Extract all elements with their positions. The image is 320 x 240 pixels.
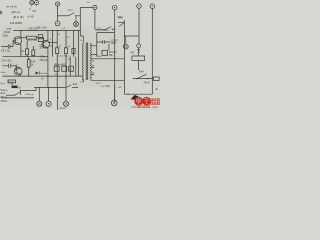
node J14 [20, 90, 21, 91]
resistor R17 [56, 48, 59, 54]
label [111, 39, 119, 45]
wire [133, 78, 154, 80]
switch SA1 [96, 27, 115, 31]
lamp HL5 [46, 88, 51, 106]
resistor R14 [21, 36, 44, 42]
transformer T1 right winding [90, 43, 91, 81]
node J1 [57, 15, 58, 16]
tap wire [91, 58, 125, 60]
resistor R13 [38, 35, 43, 42]
transformer T1 left winding [81, 36, 84, 82]
resistor R25 [153, 77, 159, 80]
label [3, 28, 12, 37]
resistor R16 [32, 46, 35, 57]
watermark url [131, 105, 157, 109]
lamp HL1 [55, 2, 59, 6]
meter PV4 [150, 4, 155, 9]
node J8 [48, 87, 49, 88]
node J13 [128, 94, 129, 95]
fuse FU1 [12, 86, 22, 90]
wire column [72, 30, 74, 56]
lamp HL7 [30, 1, 34, 7]
resistor R23 [69, 66, 74, 71]
capacitor C6 [2, 59, 17, 67]
diode VD5 [137, 48, 140, 56]
watermark logo [130, 95, 138, 100]
meter PV1 [74, 16, 79, 27]
node J4 [28, 76, 29, 77]
watermark seal 1 [134, 97, 143, 106]
wire rail D [3, 56, 49, 58]
wire [151, 9, 153, 95]
meter PA1 [55, 21, 60, 26]
wire [57, 88, 59, 110]
switch SA4 [136, 70, 148, 80]
watermark text [150, 98, 160, 104]
wire [124, 35, 138, 37]
resistor R15 [22, 41, 29, 57]
capacitor C8 [97, 40, 110, 43]
node J2 [124, 35, 125, 36]
node J11 [57, 30, 58, 31]
transistor VT3 [13, 30, 22, 56]
wire [118, 21, 124, 23]
node J6 [65, 76, 66, 77]
node J9 [57, 87, 58, 88]
wire [114, 31, 116, 103]
tap wire [91, 66, 94, 68]
switch SA5 [68, 10, 77, 16]
node J10 [57, 97, 58, 98]
switch SA6 [6, 92, 20, 96]
resistor R18 [64, 48, 67, 54]
label [40, 55, 49, 61]
transformer T1 core [86, 43, 88, 81]
label [39, 45, 47, 50]
label smudge [1, 11, 2, 15]
lamp HL4 [37, 88, 42, 106]
wire column [69, 57, 71, 76]
transistor VT4 [42, 30, 50, 87]
wire column [65, 30, 67, 87]
wire [76, 8, 93, 37]
wire column [75, 57, 77, 76]
meter PA3 [111, 84, 117, 106]
switch SA3 [65, 83, 78, 88]
lamp HL3 [123, 36, 128, 49]
wire column [52, 30, 54, 56]
wire [48, 41, 57, 43]
lamp HL2 [93, 5, 97, 9]
meter PV3 [137, 4, 142, 9]
lamp HL6 [63, 88, 68, 106]
resistor R24 [102, 50, 117, 57]
wire [1, 97, 34, 99]
wire [94, 10, 96, 30]
wire [57, 6, 59, 21]
wire [97, 32, 114, 34]
wire [108, 44, 110, 50]
wire column [56, 30, 58, 87]
wire [138, 8, 140, 44]
wire [96, 33, 98, 56]
paper grain overlay [0, 0, 160, 110]
wire [114, 10, 116, 31]
wire [20, 88, 36, 95]
resistor R19 [27, 57, 36, 76]
node J5 [47, 76, 48, 77]
meter PA2 [137, 44, 141, 48]
wire column [78, 30, 80, 76]
resistor R21 [62, 63, 67, 71]
relay K1 [132, 56, 145, 70]
switch SA2 [118, 16, 124, 27]
tap wire [91, 46, 97, 55]
node J12 [65, 30, 66, 31]
wire [58, 15, 68, 17]
relay KA1 [8, 80, 16, 85]
tap wire [92, 79, 125, 81]
wire [124, 93, 152, 95]
wire [123, 20, 125, 94]
node J7 [39, 87, 40, 88]
node J3 [114, 80, 115, 81]
watermark seal 2 [142, 97, 151, 106]
capacitor C5 [1, 41, 13, 53]
wire rail A [14, 29, 81, 31]
tap wire [91, 73, 94, 75]
transistor VT6 [14, 64, 22, 76]
diode VD2 [36, 71, 48, 75]
meter PV2 [112, 5, 117, 10]
resistor R20 [54, 63, 59, 71]
lamp HL8 [35, 1, 39, 7]
wire rail B [34, 87, 65, 89]
resistor R22 [72, 48, 75, 53]
wire rail C [3, 75, 84, 77]
